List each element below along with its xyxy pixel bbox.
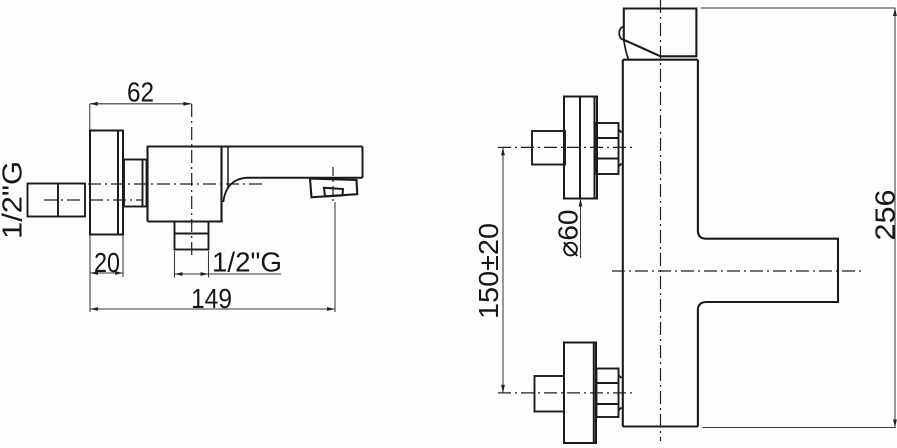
top eccentric flange (564, 97, 597, 199)
dim 256 arrows (893, 8, 897, 428)
dia 60 arrow (579, 199, 583, 207)
body vertical centerline (191, 104, 193, 255)
svg-text:149: 149 (191, 283, 232, 314)
spout tube (right view, T shape) (698, 232, 838, 310)
bottom wall pipe (535, 376, 565, 412)
dim 149 lines (90, 202, 335, 312)
svg-text:1/2"G: 1/2"G (212, 247, 282, 278)
bottom connector centerline (498, 392, 632, 394)
svg-text:62: 62 (127, 77, 154, 108)
bottom hex nut (597, 369, 622, 418)
aerator housing (tapered) (310, 179, 357, 198)
svg-text:1/2"G: 1/2"G (0, 161, 28, 239)
spout-body joint line (227, 147, 229, 189)
svg-text:20: 20 (94, 247, 120, 278)
dim 1/2"G outlet lines (175, 251, 282, 278)
handle lever lower curve (624, 40, 629, 60)
spout top edge (147, 145, 363, 147)
top wall pipe (532, 131, 565, 165)
wall flange (escutcheon) (90, 131, 123, 235)
dim 62 arrows (90, 102, 192, 106)
dim 62 lines (90, 104, 192, 130)
dim 20 lines (90, 235, 123, 313)
faucet body (right view) (623, 60, 698, 427)
dim 150±20 arrows (501, 147, 505, 393)
handle lever (624, 9, 697, 57)
top hex nut (597, 123, 622, 174)
dim 1/2"G arrows (175, 272, 209, 276)
body vertical centerline (right view) (660, 0, 662, 441)
svg-text:150±20: 150±20 (473, 223, 504, 319)
shower outlet stub (175, 222, 209, 250)
dim 256 extension lines (701, 8, 896, 428)
supply axis centerline (44, 199, 142, 201)
handle lever end bump arc (619, 27, 624, 40)
svg-text:⌀60: ⌀60 (553, 210, 584, 258)
union connector between flange and body (124, 160, 147, 207)
valve body (left view) (148, 147, 223, 222)
dim 149 arrows (90, 307, 335, 311)
spout underside (246, 177, 363, 179)
dim 20 arrows (90, 271, 123, 275)
spout end edge (362, 147, 364, 178)
spout axis centerline (88, 183, 265, 185)
dia 60 extension line (580, 199, 582, 259)
bottom eccentric flange (564, 343, 596, 444)
supply pipe nipple (28, 184, 86, 217)
top connector centerline (498, 146, 632, 148)
aerator inner ring (tapered) (324, 188, 343, 197)
dim 150±20 line (502, 147, 504, 393)
spout underside fillet curve (223, 178, 246, 202)
spout axis centerline (right view) (612, 270, 861, 272)
svg-text:256: 256 (870, 190, 897, 241)
aerator centerline (332, 167, 334, 202)
